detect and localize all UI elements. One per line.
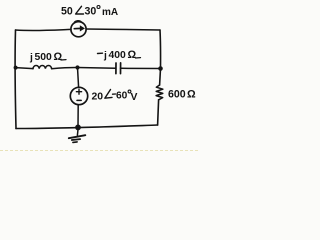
current source pen loop at top	[75, 21, 82, 22]
node A: left middle junction dot	[14, 66, 18, 70]
svg-text:30: 30	[85, 5, 97, 17]
svg-text:j: j	[29, 53, 33, 64]
resistor R1 600Ω zigzag	[156, 85, 163, 100]
node B: middle branch junction dot	[75, 65, 79, 69]
svg-text:50: 50	[61, 5, 73, 17]
V1 minus sign	[77, 99, 81, 101]
wire: top right segment	[86, 29, 160, 30]
svg-text:60: 60	[116, 91, 128, 102]
capacitor C1 right plate	[120, 63, 122, 74]
capacitor C1 left plate	[115, 63, 117, 74]
svg-text:20: 20	[92, 92, 104, 103]
wire: left vertical	[14, 30, 17, 129]
svg-text:Ω: Ω	[187, 88, 196, 100]
wire: right vertical lower	[158, 100, 159, 125]
ground bar 2	[72, 138, 80, 141]
svg-text:j: j	[103, 51, 107, 62]
inductor L1 (j500)	[33, 66, 52, 69]
wire: branch to voltage source	[78, 68, 79, 88]
ground bar 3	[73, 141, 77, 144]
node C: right junction dot	[158, 66, 163, 71]
ground bar 1	[69, 135, 86, 138]
wire: right vertical to resistor	[159, 69, 162, 86]
label 600Ω	[168, 88, 196, 100]
wire: below voltage source	[77, 105, 79, 128]
wire: middle left lead	[16, 68, 33, 69]
ground stub	[76, 130, 79, 136]
node D: bottom junction dot	[75, 125, 81, 131]
label 20∠-60°V	[92, 90, 138, 103]
svg-text:mA: mA	[102, 7, 118, 18]
wire: right vertical upper	[159, 30, 162, 69]
svg-text:500: 500	[35, 52, 53, 63]
svg-text:Ω: Ω	[128, 49, 137, 61]
svg-text:600: 600	[168, 88, 186, 100]
wire: middle right lead	[121, 67, 161, 69]
current source arrow	[74, 27, 81, 29]
V1 plus sign	[76, 89, 81, 94]
wire: middle center segment	[52, 67, 116, 68]
wire: top left segment	[16, 29, 72, 30]
svg-text:V: V	[131, 92, 138, 103]
wire: bottom	[16, 125, 158, 129]
label 50∠30° mA	[61, 5, 118, 18]
current source I1 circle	[71, 22, 86, 37]
svg-text:Ω: Ω	[54, 51, 63, 63]
svg-text:400: 400	[109, 50, 127, 61]
paper ruling line	[0, 150, 200, 152]
label -j400Ω	[98, 49, 141, 62]
voltage source V1 circle	[70, 87, 87, 104]
label j500Ω	[29, 51, 66, 64]
